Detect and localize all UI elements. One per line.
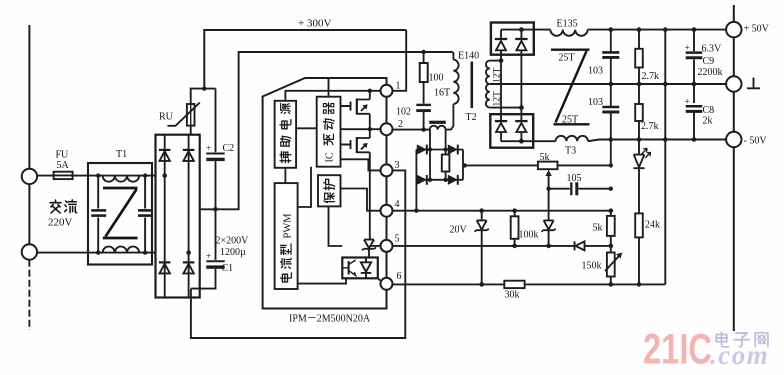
network middle resistor [442,155,450,172]
output terminal ground [726,76,741,91]
wiper line down through pin4 wire to zener [548,189,550,220]
resistor 30k [504,281,524,288]
svg-text:+: + [685,44,690,54]
protection block to brake transistor [329,206,343,246]
output terminal +50V [733,5,735,22]
T2 secondary windings 12T/12T [486,61,490,108]
svg-text:25T: 25T [562,115,578,126]
svg-text:- 50V: - 50V [744,136,768,147]
pin 4 wire [393,210,611,212]
wire: IC driver top stub [328,78,330,97]
T1 core Z symbol [103,188,138,238]
svg-text:5: 5 [395,234,400,245]
resistor 2.7k lower [635,104,643,121]
terminal: AC input lower circle [22,244,37,259]
svg-text:+: + [685,98,690,108]
wire: secondary top tap [490,60,501,62]
20V zener chain [481,211,483,220]
resistor 5k (right) [610,211,612,216]
block: aux supply 辅助电源 [275,101,297,168]
svg-text:+ 50V: + 50V [744,24,770,35]
block: current-mode PWM 电流型PWM [275,183,298,289]
svg-text:100k: 100k [519,230,539,241]
block: protection 保护 [318,175,341,206]
svg-text:E135: E135 [557,19,578,30]
T1 bottom wire [88,252,156,254]
svg-text:C8: C8 [703,105,715,116]
capacitor C2 [215,89,217,153]
wire: secondary center tap to ground rail [490,83,726,85]
wire: bridge + output up to RU [190,126,192,135]
pin 2 terminal [381,123,393,135]
bridge diode bottom-left [159,261,171,263]
bridge AC junction dots [162,173,167,178]
wire: brake module to pin 6 [378,278,382,281]
svg-text:2200k: 2200k [698,67,723,78]
svg-text:150k: 150k [582,261,602,272]
wire: aux to IC driver [296,127,317,129]
fuse FU 5A [54,172,73,179]
svg-text:3: 3 [395,160,400,171]
svg-text:+: + [206,252,211,262]
wire: +50V top rail [588,29,727,31]
wire: pin2 to current sense winding [392,129,430,131]
svg-text:+: + [206,144,211,154]
network top row with diodes [416,149,463,151]
internal zener D7 [364,240,374,248]
svg-text:IC: IC [324,152,335,162]
capacitor C8 [686,105,703,108]
wire: aux bottom to PWM [284,168,286,183]
potentiometer 5k [538,162,558,170]
varistor RU [187,104,195,126]
variable resistor 150k [610,246,612,253]
block: IC driver IC驱动器 [317,97,341,167]
upper rectifier diodes [496,30,506,55]
capacitor C9 column [693,30,695,140]
svg-text:+ 300V: + 300V [298,18,331,30]
upper output rectifier box [491,23,534,55]
potentiometer wiper arrow [548,175,550,189]
svg-text:RU: RU [159,112,174,123]
upper IGBT Q1 [341,102,351,111]
bridge diode top-right [183,149,195,151]
pin 3 terminal [381,164,393,176]
svg-text:4: 4 [395,199,400,210]
T2 core [470,62,473,109]
svg-text:105: 105 [567,173,582,184]
network right rail [462,150,464,180]
svg-text:C9: C9 [703,56,715,67]
svg-text:2.7k: 2.7k [641,121,659,132]
wire: left AC input vertical line [28,25,30,244]
zener to pin5 line [544,220,554,229]
capacitor C9 [686,51,703,54]
auxiliary column x=665.3 [664,30,666,285]
capacitor 102 [423,82,425,104]
lower output rectifier box [490,114,533,148]
wire: aux supply top to pin 1 rail [285,91,380,101]
wire: C1/C2 midpoint to bridge edge and primary rail riser [200,52,453,209]
transformer T2 primary 16T [452,52,454,60]
label: 交流 220V [50,200,61,213]
network bottom row with diodes [416,179,463,181]
wire: AC neutral to T1 [37,252,88,254]
wire: secondary bottom tap [490,107,522,109]
svg-text:2k: 2k [703,116,713,127]
bridge right diode column [188,135,190,298]
capacitor 103 lower [602,106,619,109]
svg-text:2.7k: 2.7k [642,71,660,82]
wire: +300V rail [204,30,406,89]
svg-text:6.3V: 6.3V [702,44,723,55]
pin 6 wire [393,283,666,285]
svg-text:.com: .com [710,340,769,370]
svg-text:25T: 25T [559,53,575,64]
svg-text:E140: E140 [458,51,479,62]
resistor 2.7k upper [635,49,643,68]
T1 right X-capacitor [144,176,146,253]
pin3 wire to IC driver [341,159,381,170]
svg-text:C2: C2 [223,143,235,154]
series diode pointing left [575,241,585,250]
svg-text:PWM: PWM [282,213,293,239]
resistor 24k [635,213,643,237]
T1 left X-capacitor [97,176,99,253]
wire: RU top to +300V corner and C2 [191,89,216,104]
secondary rectifier columns [501,55,521,114]
resistor 100k [514,211,516,217]
svg-text:220V: 220V [48,217,73,229]
protection block to pin 4 [341,189,381,211]
wire: pin2 internal rail [341,128,381,130]
capacitor 105 [549,188,570,190]
bridge diode top-left [159,149,171,151]
pin 5 wire [393,245,574,247]
pin 1 terminal [381,85,393,97]
svg-text:5k: 5k [593,223,603,234]
svg-text:T3: T3 [565,146,576,157]
svg-text:103: 103 [588,66,603,77]
LED indicator [633,155,644,169]
svg-text:2: 2 [398,119,403,130]
wire: IC driver bottom-left to PWM right [298,167,311,207]
svg-text:6: 6 [397,271,402,282]
svg-text:5A: 5A [57,160,70,171]
svg-text:T2: T2 [466,112,477,123]
line filter T1 box [88,163,152,265]
wire: +300V down to pin 1 [392,30,406,91]
capacitor C1 [215,209,217,260]
terminal: AC input upper circle [22,169,37,184]
svg-text:2×200V: 2×200V [216,236,250,247]
lower rectifier diodes [496,114,506,141]
svg-text:30k: 30k [505,290,520,301]
svg-text:1200µ: 1200µ [220,247,246,258]
bridge left diode column [164,135,166,298]
network output to 5k potentiometer [463,164,538,166]
wire: -50V rail [588,140,726,142]
2.7k / LED / 24k column x=639 [638,30,640,49]
T3 core Z symbol [551,50,590,125]
network winding drops [430,130,446,180]
IPM module outline with beveled corner [263,78,387,309]
T1 top winding [103,176,140,182]
pin 5 terminal [381,240,393,252]
svg-text:102: 102 [396,107,411,118]
T1 bottom winding [103,247,140,253]
inductor T3 lower 25T winding [533,140,555,142]
bridge rectifier box [156,135,200,298]
brake transistor/diode module box [342,258,378,279]
pin 6 terminal [381,278,393,290]
T1 junction dots [96,173,100,177]
x=610.8 feedback column [610,30,612,166]
svg-text:T1: T1 [116,149,127,160]
svg-text:IPM－2M500N20A: IPM－2M500N20A [289,314,371,325]
svg-text:5k: 5k [540,152,550,163]
svg-text:1: 1 [396,81,401,92]
wire: negative bus outer loop to pin 3 [191,170,405,338]
T1 top wire [88,175,156,177]
wire: dashed lower-left vertical [28,260,30,330]
svg-text:24k: 24k [645,220,660,231]
wire: PWM bottom to brake module [298,278,346,283]
capacitor 103 upper [602,51,619,54]
svg-text:103: 103 [588,97,603,108]
svg-text:100: 100 [429,73,444,84]
pin5 internal wire [371,245,381,247]
network left rail [415,150,417,211]
resistor 100 [423,52,425,63]
output terminal -50V [726,132,741,147]
current sense transformer winding and core [430,126,446,130]
svg-text:20V: 20V [450,225,468,236]
bridge diode bottom-right [183,261,195,263]
inductor E135 (T3 upper 25T winding) [534,29,551,31]
pin 4 terminal [381,205,393,217]
svg-text:16T: 16T [434,88,450,99]
svg-text:FU: FU [56,150,70,161]
wire: AC hot to fuse and T1 [37,175,88,177]
svg-text:21IC: 21IC [643,326,712,374]
lower IGBT Q2 [341,140,351,149]
svg-text:C1: C1 [222,263,234,274]
